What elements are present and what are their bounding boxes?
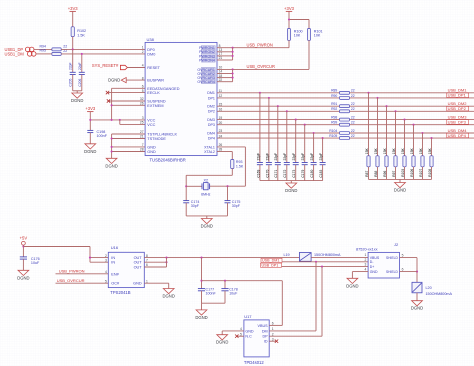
svg-text:BUSPWR: BUSPWR: [147, 79, 164, 83]
svg-text:GND: GND: [370, 270, 378, 274]
svg-text:XTAL1: XTAL1: [204, 145, 215, 149]
svg-text:DGND: DGND: [163, 294, 175, 299]
svg-text:USB_DP4: USB_DP4: [448, 133, 467, 138]
svg-text:1.5K: 1.5K: [236, 164, 244, 168]
svg-text:22pF: 22pF: [256, 153, 260, 161]
svg-text:TUSB2046BIRHBR: TUSB2046BIRHBR: [150, 158, 186, 163]
svg-text:DM1: DM1: [207, 91, 215, 95]
svg-text:5: 5: [142, 89, 144, 93]
svg-text:DP1: DP1: [208, 96, 215, 100]
svg-text:DP2: DP2: [208, 110, 215, 114]
svg-text:15K: 15K: [365, 148, 369, 155]
svg-text:DGND: DGND: [105, 163, 117, 168]
svg-text:R90: R90: [331, 94, 337, 98]
svg-text:DM: DM: [262, 329, 268, 333]
svg-text:150OHM800mA: 150OHM800mA: [314, 253, 341, 257]
svg-text:ID: ID: [264, 340, 268, 344]
svg-text:C206: C206: [78, 79, 82, 87]
svg-text:DGND: DGND: [17, 275, 29, 280]
svg-text:4: 4: [142, 64, 144, 68]
svg-text:VCC: VCC: [147, 118, 155, 122]
svg-text:R92: R92: [331, 107, 337, 111]
svg-text:21: 21: [140, 135, 144, 139]
svg-text:10uF: 10uF: [229, 292, 238, 296]
svg-text:VCC: VCC: [147, 123, 155, 127]
svg-text:6MHz: 6MHz: [201, 192, 211, 196]
svg-text:DGND: DGND: [84, 149, 96, 154]
svg-text:R95: R95: [40, 49, 46, 53]
svg-text:15K: 15K: [428, 148, 432, 155]
svg-text:22pF: 22pF: [319, 153, 323, 161]
svg-text:TSTMODE: TSTMODE: [147, 137, 166, 141]
svg-text:USB_DP2: USB_DP2: [448, 106, 467, 111]
svg-text:2: 2: [365, 258, 367, 262]
svg-text:22pF: 22pF: [274, 153, 278, 161]
svg-text:100nF: 100nF: [97, 134, 108, 138]
svg-text:R105: R105: [329, 134, 337, 138]
svg-text:L20: L20: [426, 286, 432, 290]
svg-text:OUT: OUT: [134, 266, 143, 270]
svg-text:R104: R104: [329, 129, 337, 133]
svg-text:DP3: DP3: [208, 123, 215, 127]
svg-text:8: 8: [142, 76, 144, 80]
svg-text:SHIELD: SHIELD: [386, 270, 399, 274]
svg-text:15K: 15K: [383, 148, 387, 155]
svg-text:GND: GND: [147, 150, 156, 154]
svg-text:DGND: DGND: [216, 340, 228, 345]
svg-text:3: 3: [365, 263, 367, 267]
svg-text:DP0: DP0: [147, 48, 154, 52]
svg-text:RESET: RESET: [147, 66, 160, 70]
svg-text:U38: U38: [147, 37, 155, 42]
svg-text:SYS_RESET#: SYS_RESET#: [92, 63, 119, 68]
svg-text:USB1_DM: USB1_DM: [5, 51, 25, 56]
svg-text:28: 28: [140, 148, 144, 152]
svg-text:10uF: 10uF: [31, 261, 40, 265]
svg-text:R94: R94: [40, 44, 46, 48]
svg-text:R91: R91: [331, 102, 337, 106]
svg-text:22pF: 22pF: [78, 62, 82, 70]
svg-text:R96: R96: [383, 170, 387, 176]
svg-text:DGND: DGND: [195, 315, 207, 320]
svg-text:R87: R87: [365, 170, 369, 176]
svg-text:DGND: DGND: [394, 188, 406, 193]
svg-text:22: 22: [351, 129, 355, 133]
svg-text:C171: C171: [274, 170, 278, 178]
svg-text:IN: IN: [111, 256, 115, 260]
svg-text:USB_OVRCUR: USB_OVRCUR: [247, 64, 275, 69]
svg-text:OUT: OUT: [134, 256, 143, 260]
svg-text:OUT: OUT: [134, 261, 143, 265]
svg-text:2: 2: [105, 254, 107, 258]
svg-text:22pF: 22pF: [283, 153, 287, 161]
svg-text:15K: 15K: [392, 148, 396, 155]
svg-text:USB_DP1: USB_DP1: [262, 264, 279, 268]
svg-text:15K: 15K: [374, 148, 378, 155]
svg-text:15K: 15K: [419, 148, 423, 155]
svg-text:DM0: DM0: [147, 52, 155, 56]
svg-text:+3V3: +3V3: [68, 6, 79, 11]
svg-text:100nF: 100nF: [206, 292, 217, 296]
svg-text:C205: C205: [69, 79, 73, 87]
svg-text:GND: GND: [147, 145, 156, 149]
svg-text:X2: X2: [204, 179, 209, 183]
svg-text:R98: R98: [331, 116, 337, 120]
svg-text:10K: 10K: [294, 33, 301, 37]
svg-text:27: 27: [140, 130, 144, 134]
svg-text:C180: C180: [310, 170, 314, 178]
svg-text:1.5K: 1.5K: [77, 33, 85, 37]
svg-text:DP4: DP4: [208, 137, 215, 141]
svg-text:C173: C173: [292, 170, 296, 178]
svg-text:D+: D+: [370, 265, 375, 269]
svg-text:U16: U16: [111, 245, 119, 250]
svg-text:DM4: DM4: [207, 131, 215, 135]
svg-text:2: 2: [142, 50, 144, 54]
svg-text:N.C: N.C: [245, 335, 252, 339]
svg-text:26: 26: [140, 102, 144, 106]
svg-text:R107: R107: [419, 169, 423, 177]
svg-text:5: 5: [402, 253, 404, 257]
svg-text:PWRON4: PWRON4: [199, 58, 215, 62]
svg-text:4: 4: [365, 268, 367, 272]
svg-text:22pF: 22pF: [310, 153, 314, 161]
svg-text:DGND: DGND: [411, 306, 423, 311]
svg-text:GND: GND: [133, 282, 142, 286]
svg-text:EECLK: EECLK: [147, 91, 160, 95]
svg-text:15K: 15K: [401, 148, 405, 155]
svg-text:15K: 15K: [410, 148, 414, 155]
svg-text:R108: R108: [428, 169, 432, 177]
svg-text:22: 22: [351, 102, 355, 106]
svg-text:DGND: DGND: [346, 283, 358, 288]
svg-text:XTAL2: XTAL2: [204, 150, 215, 154]
svg-text:OC#: OC#: [111, 282, 120, 286]
svg-text:C170: C170: [265, 170, 269, 178]
svg-text:DGND: DGND: [285, 188, 297, 193]
svg-text:22pF: 22pF: [292, 153, 296, 161]
svg-text:30pF: 30pF: [191, 204, 200, 208]
svg-text:10K: 10K: [314, 33, 321, 37]
svg-text:DGND: DGND: [201, 224, 213, 229]
svg-text:GND: GND: [245, 329, 254, 333]
svg-text:3: 3: [105, 258, 107, 262]
svg-text:USB_PWRON: USB_PWRON: [247, 43, 273, 48]
svg-text:R88: R88: [374, 170, 378, 176]
svg-text:4: 4: [105, 270, 107, 274]
svg-text:DM3: DM3: [207, 118, 215, 122]
svg-text:30pF: 30pF: [232, 204, 241, 208]
svg-text:C183: C183: [319, 170, 323, 178]
svg-text:U17: U17: [244, 314, 252, 319]
svg-text:USB_DP3: USB_DP3: [448, 120, 467, 125]
svg-text:TPS2041B: TPS2041B: [110, 290, 130, 295]
svg-text:R103: R103: [401, 169, 405, 177]
svg-text:1: 1: [142, 46, 144, 50]
svg-text:22: 22: [351, 107, 355, 111]
svg-text:150OHM800mA: 150OHM800mA: [426, 292, 453, 296]
svg-text:DGND: DGND: [108, 78, 120, 83]
svg-text:22: 22: [351, 94, 355, 98]
svg-text:USB_DM1: USB_DM1: [262, 259, 279, 263]
svg-text:22: 22: [351, 116, 355, 120]
svg-text:22: 22: [63, 45, 67, 49]
svg-text:OVRCUR4: OVRCUR4: [197, 80, 215, 84]
svg-text:22pF: 22pF: [301, 153, 305, 161]
svg-text:3: 3: [142, 116, 144, 120]
svg-text:7: 7: [142, 143, 144, 147]
svg-text:USB_OVRCUR: USB_OVRCUR: [57, 278, 85, 283]
svg-text:1: 1: [365, 253, 367, 257]
svg-text:USB_DP1: USB_DP1: [448, 93, 467, 98]
svg-text:VBUS: VBUS: [258, 324, 269, 328]
svg-text:R97: R97: [392, 170, 396, 176]
svg-text:+3V3: +3V3: [85, 106, 96, 111]
svg-text:C179: C179: [301, 170, 305, 178]
svg-text:R106: R106: [410, 169, 414, 177]
svg-text:22pF: 22pF: [265, 153, 269, 161]
svg-text:SHIELD: SHIELD: [386, 256, 399, 260]
svg-text:C169: C169: [256, 170, 260, 178]
svg-text:L19: L19: [283, 253, 289, 257]
svg-text:IN: IN: [111, 261, 115, 265]
svg-text:DM2: DM2: [207, 105, 215, 109]
svg-text:TPD4s012: TPD4s012: [244, 360, 264, 365]
svg-text:R99: R99: [331, 121, 337, 125]
svg-text:USB_PWRON: USB_PWRON: [59, 269, 85, 274]
svg-text:R89: R89: [331, 89, 337, 93]
svg-text:22: 22: [351, 89, 355, 93]
svg-text:C172: C172: [283, 170, 287, 178]
svg-text:25: 25: [140, 121, 144, 125]
svg-text:+5V: +5V: [20, 235, 28, 240]
svg-text:22: 22: [351, 121, 355, 125]
svg-text:22: 22: [351, 134, 355, 138]
svg-text:EXTMEM: EXTMEM: [147, 104, 163, 108]
svg-text:6: 6: [402, 268, 404, 272]
svg-text:EN#: EN#: [111, 272, 119, 276]
svg-text:87520-xx1xx: 87520-xx1xx: [356, 248, 378, 252]
svg-text:DP: DP: [262, 335, 268, 339]
svg-text:22pF: 22pF: [69, 62, 73, 70]
svg-text:DGND: DGND: [71, 98, 83, 103]
svg-text:TSTPLL/48MCLK: TSTPLL/48MCLK: [147, 133, 177, 137]
svg-text:5: 5: [105, 279, 107, 283]
svg-text:+3V3: +3V3: [284, 6, 295, 11]
